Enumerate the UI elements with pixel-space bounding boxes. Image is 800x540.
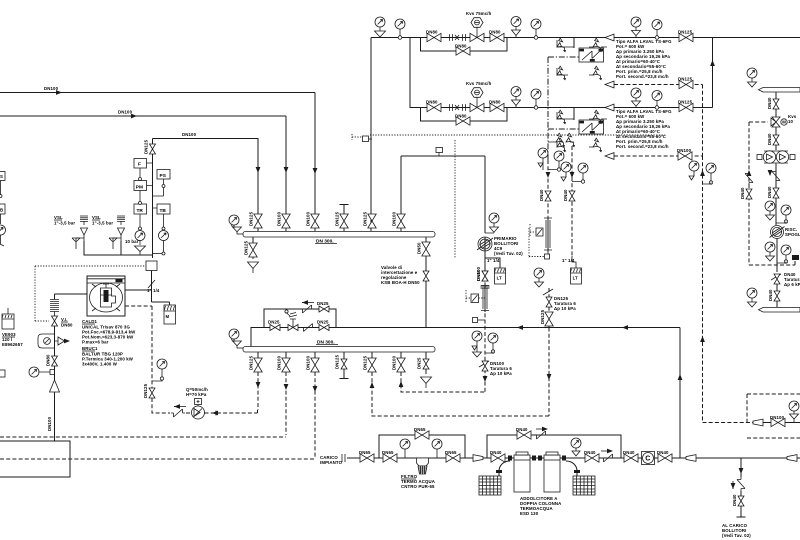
svg-text:DN80: DN80 [455,114,467,119]
antivibration spring [50,300,59,317]
svg-text:CNTRO PUR-65: CNTRO PUR-65 [401,484,435,489]
gauge left [29,367,39,377]
recirculation loop with check [38,334,55,348]
valve DN40 [776,284,778,307]
valve DN100 drop3 [314,352,316,372]
wire dashed drop5 [372,372,549,416]
valve DN125 c1 right [679,33,693,41]
svg-text:C: C [645,456,650,463]
valve DN125 riser1 [254,214,262,228]
wire riser to header 1 [314,93,316,232]
heat exchanger U1 [573,38,575,49]
svg-text:M: M [782,120,786,125]
gauges [765,201,775,211]
svg-text:DN25: DN25 [417,357,422,369]
control valve DN100 taratura [479,361,489,367]
wire riser to header 1 [285,116,287,231]
valve DN125 drop5 [371,352,373,372]
svg-text:DN40: DN40 [732,494,737,506]
svg-text:DN65: DN65 [382,450,394,455]
svg-text:DN125: DN125 [363,355,368,370]
valve DN125 c2 right [679,103,693,111]
bottom right dashed pump box [703,422,754,424]
wire return exch2 dashed [614,155,703,157]
funnel drain [231,339,241,348]
valve DN100 riser2 [282,214,290,228]
valve DN40 d [491,454,505,462]
gauge with funnel on corner [375,17,385,27]
sensor box 2 [471,294,479,303]
wire dashed x485 column [484,270,486,392]
valve DN50 B [569,191,575,201]
check valve [171,409,185,417]
pump RISC SPOG [770,226,785,239]
svg-text:DN65: DN65 [445,450,457,455]
check valve main [601,454,615,462]
gauge above LT B [534,268,544,278]
wire dashed drop3 [314,372,316,458]
header 2 DN300 collector [243,347,435,353]
svg-text:DN40: DN40 [657,450,669,455]
wire dashed drop2 [285,372,287,435]
svg-text:P.max=6 bar: P.max=6 bar [82,340,109,345]
open arrow to spec [605,34,614,41]
boiler CALD1 [87,276,125,316]
wire return exch1 dashed [614,85,703,157]
svg-text:10: 10 [788,119,794,124]
svg-text:DN100: DN100 [277,211,282,226]
svg-text:B: B [0,208,3,213]
svg-text:DN100: DN100 [47,416,52,431]
wire dash-dot from vessel line [35,266,146,321]
control valve DN40 taratura [771,274,781,280]
svg-text:DN25: DN25 [268,320,280,325]
wire dashed drop1 [257,372,259,410]
gauge and funnel c1 [511,17,521,27]
gauge on junction [398,36,402,40]
svg-text:E8962657: E8962657 [2,342,23,347]
branch to bollitori [740,458,742,477]
flow arrow [284,167,289,173]
gauge after softener [571,438,581,448]
wire supply DN100 top [0,92,315,94]
riser sanitary [775,92,777,150]
valve DN80 bypass2 [456,117,470,125]
wire branch circuit 1 [371,37,800,39]
valve DN40 [773,188,779,198]
svg-text:(Vedi Tav. 02): (Vedi Tav. 02) [494,251,523,256]
check valve bypass2 [534,431,548,439]
svg-text:DN100: DN100 [770,415,785,420]
tiny box left edge [0,370,5,377]
svg-text:DN80: DN80 [489,30,501,35]
valve DN80 c2 [427,103,441,111]
svg-text:DN25: DN25 [317,320,329,325]
instrument box PM [134,181,147,191]
svg-text:DN125: DN125 [249,211,254,226]
wire primary pump header [401,156,485,233]
gauge on dashed column [157,359,167,369]
control valve Kvs c2 [470,103,484,111]
svg-text:Δp 6 kPa: Δp 6 kPa [784,282,800,287]
svg-text:1" 1/4: 1" 1/4 [147,288,160,293]
gauge b [432,439,442,449]
diffuser cone [50,380,60,392]
twin pumps [757,151,795,163]
svg-text:Δp 10 kPa: Δp 10 kPa [554,306,576,311]
wire dashed to pump [152,398,170,413]
pump PRIMARIO BOLLITORI [477,237,493,251]
reducer 3 [787,455,797,462]
wire main water line [347,457,800,459]
svg-text:DN100: DN100 [392,355,397,370]
wire vertical to circuit 2 [410,38,428,108]
bypass dashed left [749,122,795,265]
svg-text:Port. second.=23,8 mc/h: Port. second.=23,8 mc/h [616,74,669,79]
brine basket B [573,476,595,495]
wire riser x372 from top [370,38,372,232]
svg-text:(Vedi Tav. 02): (Vedi Tav. 02) [722,533,751,538]
flow arrow left [302,300,308,305]
valve DN125 drop4 capped [340,352,349,379]
wire to expansion vessel [152,294,170,305]
valve DN40 bypass [746,189,752,199]
instrument box PS [157,170,170,180]
valve DN125 below header2 drop1 [257,352,259,372]
svg-text:DN40: DN40 [767,133,772,145]
valve DN40 [773,99,779,109]
svg-text:DN125: DN125 [363,211,368,226]
flow arrow [517,325,523,330]
open arrow to spec2 [605,104,614,111]
gauge at header1 left [229,215,239,225]
wire bypass c1 [421,38,508,52]
valve DN65 b [383,454,397,462]
svg-text:DN50: DN50 [417,242,422,254]
svg-text:DN40: DN40 [516,427,528,432]
funnel drain [231,225,241,234]
svg-text:DN100: DN100 [44,86,59,91]
vent valves exchanger2 [557,110,566,124]
pipe break ticks [342,454,345,462]
valve DN50 drain with cap [482,271,488,281]
svg-text:H=70 kPa: H=70 kPa [186,392,207,397]
svg-text:DN125: DN125 [335,211,340,226]
valve DN80 c2 out [490,103,504,111]
valve DN125 riser x372 [368,214,376,228]
instrument column riser [152,139,154,259]
capped stub with valve DN125 [340,205,349,232]
wire dashed main return down [702,156,704,422]
sensor stub [436,148,443,153]
valve DN125 [545,312,553,326]
wire long dashed return B [0,458,315,460]
svg-text:DN125: DN125 [143,383,148,398]
dotted vertical [454,140,456,258]
reducer 2 [686,455,696,462]
svg-text:DN65: DN65 [359,450,371,455]
gauge pump suction [489,213,499,223]
svg-text:DN125: DN125 [678,100,693,105]
wire boiler outlet left [55,294,88,299]
flex joint [441,37,490,39]
softener column B [544,452,560,492]
water meter C [642,452,655,465]
valve DN40 e [585,454,599,462]
valve DN100 return2 [678,152,692,160]
valve DN100 drop2 [285,352,287,372]
check valve [772,169,780,183]
valve DN100 riser x401 [397,214,405,228]
wire return to header bypass right [679,328,681,459]
vessel LT A [495,268,506,284]
svg-text:1"-3,5 bar: 1"-3,5 bar [54,221,75,226]
svg-text:DN40: DN40 [740,187,745,199]
svg-text:DN125: DN125 [678,77,693,82]
svg-text:DN100: DN100 [306,211,311,226]
instrument box TR [134,204,147,214]
flow arrow up riser x712 [710,60,715,66]
gauge at bar1 [747,68,757,78]
svg-text:DN40: DN40 [767,97,772,109]
reducer [753,419,763,426]
svg-text:DN80: DN80 [46,354,51,366]
svg-text:DN40: DN40 [490,450,502,455]
wire dashed instrument columns [548,146,572,256]
control valve Kvs c1 [470,33,484,41]
valve DN50 A [545,191,551,201]
svg-text:Kvs 75mc/h: Kvs 75mc/h [466,81,492,86]
sanitary collector bar 2 [759,308,800,313]
svg-text:DN125: DN125 [540,309,545,324]
gauge and funnel c2 [511,87,521,97]
right cluster gauges [538,148,548,158]
control valve with actuator [288,325,298,331]
check valve bypass [745,171,753,185]
svg-text:KSB BOA-H DN50: KSB BOA-H DN50 [381,280,420,285]
svg-text:1"-3,5 bar: 1"-3,5 bar [92,221,113,226]
flow meter 2 [484,284,486,312]
svg-text:Kvs 75mc/h: Kvs 75mc/h [466,11,492,16]
collector box bottom left [0,441,70,477]
header 1 DN300 collector [243,232,435,238]
wire boiler supply DN100 [153,139,259,232]
control valve DN125 taratura [543,289,553,295]
wire long dashed return A [0,436,286,438]
valve DN100 drop6 [400,352,402,372]
flow arrow [56,90,62,95]
check valve [301,324,315,332]
valve V.I. DN80 [52,316,58,326]
svg-text:DN100: DN100 [677,148,692,153]
svg-text:DN80: DN80 [489,100,501,105]
valve DN100 [771,418,785,426]
svg-text:DN125: DN125 [335,354,340,369]
svg-text:DN125: DN125 [144,139,149,154]
valve DN125 return1 [679,80,693,88]
svg-text:DN125: DN125 [244,240,249,255]
svg-text:DN40: DN40 [584,450,596,455]
instrument box F [134,159,147,169]
svg-text:DN25: DN25 [317,301,329,306]
slash symbol [148,280,155,288]
svg-text:TB: TB [160,208,167,214]
svg-text:DN80: DN80 [455,44,467,49]
check valve on upper loop [300,305,314,313]
junction gauge c1 [534,36,538,40]
expansion vessel right [164,305,176,324]
svg-text:DN125: DN125 [249,355,254,370]
svg-text:DN40: DN40 [539,189,544,201]
check valve vertical [737,477,745,491]
valve DN65 bypass [415,431,429,439]
pump anticondensa [192,406,205,419]
valve DN40 branch [740,491,742,517]
wire branch circuit 2 [428,107,713,109]
svg-text:DN80: DN80 [61,323,73,328]
valve DN50 below header1 right [425,237,427,328]
svg-text:PM: PM [136,185,143,191]
gauge 10 bar [135,231,145,241]
wire bypass c2 [421,108,508,122]
left edge instrument boxes [0,172,5,181]
softener column A [514,452,530,492]
junction gauge c2 [534,106,538,110]
valve DN125 on dashed column [149,388,155,398]
valve DN40 [773,135,779,145]
svg-text:VSL: VSL [54,215,63,220]
svg-text:VSL: VSL [92,215,101,220]
wire below pumps [775,164,777,226]
wire dashdot secondary [548,57,579,160]
vessel LT B [571,268,582,284]
svg-text:DN100: DN100 [476,266,481,281]
valve DN100 top [482,271,488,281]
wire bypass return line [251,328,680,347]
svg-text:IMPIANTO: IMPIANTO [320,460,343,465]
valve DN125 below header1 with drain [252,237,254,259]
sensor pocket on riser [363,136,369,142]
svg-text:DN40: DN40 [767,186,772,198]
valve DN125 top of column [150,144,156,154]
small junction 2 [473,318,478,323]
small junction [545,254,550,259]
svg-text:10 bar: 10 bar [125,239,139,244]
wire supply DN100 second [0,115,286,117]
three way valve M [771,117,787,127]
flow arrow [313,168,318,174]
svg-text:3x400V, 1.400 W: 3x400V, 1.400 W [82,362,118,367]
gauges on return [689,161,699,171]
svg-text:DN100: DN100 [306,355,311,370]
funnel [421,377,432,388]
wire softener bypass [487,435,621,458]
reducer [473,455,483,462]
svg-text:BRUC1: BRUC1 [82,346,98,351]
funnel [135,246,153,255]
wire boiler right riser [125,271,152,303]
gauges 2 [776,239,778,273]
gauge TB side [159,231,169,241]
svg-text:DN40: DN40 [563,189,568,201]
valve DN80 c1 [427,33,441,41]
svg-text:PS: PS [160,173,167,179]
valve DN25 upper loop [319,306,329,312]
svg-text:F: F [138,162,141,168]
valve DN80 [52,356,58,366]
heat exchanger U2 [573,108,575,121]
junction box at column bottom [146,261,157,271]
valve DN80 bypass1 [456,47,470,55]
svg-text:TR: TR [137,208,144,214]
flow arrow [131,114,137,119]
gauge at bar2 [747,288,757,298]
svg-text:DN40: DN40 [768,289,773,301]
wire dashed x549 column [548,288,550,328]
valve DN80 c1 out [490,33,504,41]
svg-text:DN80: DN80 [426,30,438,35]
svg-text:DN65: DN65 [414,427,426,432]
svg-text:CALD1: CALD1 [82,319,98,324]
valve DN40 bypass2 [517,431,531,439]
svg-text:DN100: DN100 [277,355,282,370]
valve DN40 g [658,454,672,462]
svg-text:SPOGL.: SPOGL. [785,232,800,237]
gauges c1 top right [631,17,641,27]
gauges below [472,331,482,341]
valve DN25 main bypass [270,325,280,331]
wire dashed down from bypass [548,328,550,417]
gauge with funnel at line end [785,422,800,424]
svg-text:Δp 10 kPa: Δp 10 kPa [490,371,512,376]
gauge at header2 left [229,329,239,339]
valve DN40 f [624,454,638,462]
gauge a [400,439,410,449]
wire riser x401 [400,156,402,231]
cap [737,516,746,518]
gauges c2 top right [631,88,641,98]
wire upper bypass loop [264,309,336,328]
vent valves exchanger1 [557,38,566,52]
valve DN50 lower [423,271,429,281]
svg-text:Port. second.=23,8 mc/h: Port. second.=23,8 mc/h [616,144,669,149]
svg-text:DN100: DN100 [182,132,197,137]
wire filter bypass [379,435,465,458]
valve DN100 riser3 [311,214,319,228]
svg-text:DN100: DN100 [118,110,133,115]
svg-text:DN40: DN40 [623,450,635,455]
sensor box [536,228,543,236]
svg-text:DN100: DN100 [392,211,397,226]
valve DN65 c [446,454,460,462]
flow arrow [256,167,261,173]
valve DN65 a [360,454,374,462]
svg-text:DN80: DN80 [426,100,438,105]
flow meter [547,216,549,252]
expansion vessel VE903 [2,314,14,329]
instrument box TB [157,204,170,214]
wire down to collector box [54,392,56,441]
svg-text:1" 1/4: 1" 1/4 [487,258,500,263]
valve DN25 below header2 right [425,352,427,374]
vent pair top [556,133,565,147]
svg-text:M: M [166,314,170,319]
wire dashed drop6 [401,372,485,392]
brine basket A [479,476,501,495]
svg-text:DN125: DN125 [678,30,693,35]
svg-text:S: S [0,174,3,179]
svg-text:V.I.: V.I. [61,317,68,322]
